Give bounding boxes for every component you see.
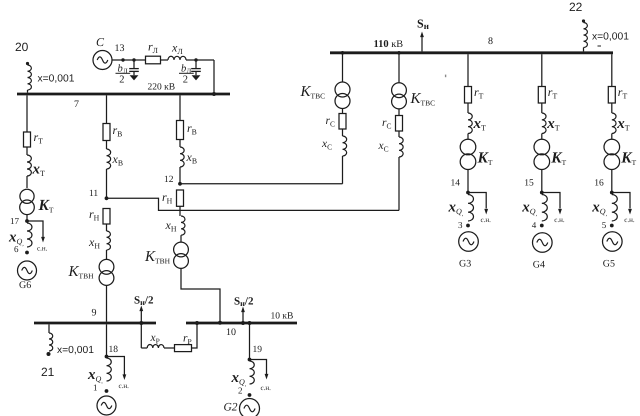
arrow s.n. node 18 (123, 374, 127, 380)
junction dot on bus 7 (212, 92, 216, 96)
wire x_t to K_t G5 (611, 134, 613, 140)
transformer K_tvs R circle 2 (392, 94, 407, 109)
svg-text:5: 5 (602, 220, 607, 230)
junction dot bus 9 load (139, 321, 143, 325)
wire x_v to node 12 (179, 167, 181, 184)
wire x_t to K_t G4 (541, 134, 543, 140)
wire r_t to x_t G3 (467, 103, 469, 113)
svg-text:1: 1 (93, 383, 98, 393)
resistor r_s R (396, 116, 403, 132)
svg-text:2: 2 (238, 386, 243, 396)
node 15 dot (540, 191, 544, 195)
transformer K_t G3 circle 2 (460, 154, 476, 170)
arrow s.n. node 17 (41, 237, 45, 243)
junction dot cap2 (194, 58, 197, 61)
wire K_tvn B to bus 10 (181, 268, 220, 321)
junction dot bus8 left K_tvs (341, 51, 345, 55)
transformer K_t G3 circle 1 (460, 139, 476, 155)
inductor x_t G5 (612, 113, 616, 134)
inductor x_t G6 (27, 155, 31, 176)
svg-text:x=0,001: x=0,001 (38, 74, 75, 85)
resistor r_s L (339, 114, 346, 130)
node 2 dot (248, 393, 252, 397)
svg-text:10: 10 (226, 327, 236, 338)
reactance x'_Q G6 (27, 223, 32, 247)
transformer K_tvn B circle 2 (174, 254, 189, 269)
junction dot cap1 (132, 58, 135, 61)
node 18 dot (105, 355, 109, 359)
load Sn/2 wire bus10 (242, 311, 244, 322)
wire node 12 to AT2 middle winding (180, 183, 343, 185)
inductor x_s R (399, 137, 403, 157)
load Sn arrowhead (420, 32, 424, 38)
node 4 dot (540, 224, 544, 228)
wire corner down to bus 7 (213, 60, 215, 93)
wire bus7 to r_t G6 (26, 95, 28, 132)
resistor r_l (146, 56, 161, 64)
svg-text:с.н.: с.н. (37, 245, 48, 253)
stray speck (445, 75, 446, 78)
node 3 dot (466, 224, 470, 228)
node 16 dot (610, 191, 614, 195)
aux load tap node 17 (s.n.) (27, 221, 43, 237)
svg-text:G4: G4 (533, 260, 545, 271)
inductor x_v B (180, 147, 184, 167)
generator G3 circle (459, 232, 479, 252)
resistor r_n A (103, 209, 110, 225)
aux load tap node 18 (s.n.) (107, 357, 125, 375)
transformer K_tvs L circle 1 (335, 82, 350, 97)
resistor r_v B (177, 121, 184, 140)
aux load tap node 19 (s.n.) (250, 360, 267, 375)
aux load tap node 16 (s.n.) (612, 193, 630, 209)
wire bus10 to node 19 (249, 324, 251, 359)
svg-text:x=0,001: x=0,001 (57, 345, 94, 356)
reactance x'_Q G4 (542, 195, 548, 221)
transformer K_tvs L circle 2 (335, 94, 350, 109)
wire r_s to x_s R (398, 131, 400, 137)
wire bus8 down G4 (541, 54, 543, 86)
svg-text:12: 12 (164, 175, 174, 185)
reactance x=0,001 (node 21) (49, 333, 53, 351)
dash under x=0,001 node 22 (598, 45, 602, 47)
svg-text:13: 13 (115, 43, 125, 54)
transformer K_tvs R circle 1 (392, 83, 407, 98)
wire K_tvn A to bus 9 (106, 285, 108, 321)
generator G5 circle (603, 232, 623, 252)
transformer K_t G6 circle 2 (20, 200, 35, 215)
svg-text:22: 22 (569, 0, 583, 14)
wire bus9 down to bridge (140, 324, 142, 348)
wire r_l to x_l (161, 59, 169, 61)
node 20 terminal dot (26, 62, 29, 65)
aux load tap node 15 (s.n.) (542, 193, 560, 209)
wire K_t to node 16 (611, 170, 613, 193)
bus 7 (220 kV busbar) (17, 93, 230, 96)
wire r_t to x_t G4 (541, 103, 543, 113)
node 6 dot (25, 251, 29, 255)
capacitor b_l/2 left with ground (133, 60, 135, 69)
load Sn/2 wire bus9 (140, 310, 142, 322)
svg-text:G6: G6 (19, 280, 31, 291)
svg-text:11: 11 (89, 189, 98, 199)
reactance x'_Q G5 (612, 195, 618, 221)
wire x_s L down to node12 wire (342, 156, 344, 184)
svg-text:с.н.: с.н. (624, 216, 635, 224)
svg-text:с.н.: с.н. (261, 384, 272, 392)
wire bus9 to coil21 (48, 324, 50, 333)
node 1 dot (105, 389, 109, 393)
generator G2 circle (240, 399, 260, 416)
transformer K_t G4 circle 2 (534, 154, 550, 170)
wire x_v to node 11 (106, 169, 108, 199)
wire K_t to node 14 (467, 170, 469, 193)
svg-text:110 кВ: 110 кВ (374, 39, 404, 50)
wire r_v to x_v B (179, 140, 181, 148)
wire x_r to r_r (164, 347, 175, 349)
reactance x'_Q G3 (468, 195, 474, 221)
wire r_r up to bus 10 (192, 324, 198, 348)
node 22 terminal dot (582, 19, 585, 22)
wire bus7 to r_v B (179, 95, 181, 120)
junction dot bus 10 node19 (248, 321, 252, 325)
wire bus8 to K_tvs R (398, 54, 400, 83)
wire r_v to x_v A (106, 141, 108, 150)
resistor r_t G6 (24, 132, 31, 147)
svg-text:C: C (96, 35, 105, 49)
node 12 dot (178, 182, 182, 186)
load Sn/2 arrowhead bus10 (241, 307, 245, 313)
svg-text:16: 16 (594, 179, 604, 189)
inductor x_n A (107, 231, 111, 250)
resistor r_r bridge (175, 345, 192, 352)
wire x_n to K_tvn B (180, 235, 182, 242)
junction dot bus 10 bridge (195, 321, 199, 325)
reactance x'_Q G2 (250, 361, 255, 384)
svg-text:с.н.: с.н. (554, 216, 565, 224)
resistor r_t G3 (465, 87, 472, 104)
arrow s.n. G3 (484, 209, 488, 215)
svg-text:9: 9 (92, 308, 97, 319)
transformer K_tvn B circle 1 (174, 242, 189, 257)
source C circle (93, 51, 112, 70)
wire x_t to K_t G6 (26, 176, 28, 188)
wire bus9 corner to x_r (141, 347, 147, 349)
capacitor b_l/2 right with ground (195, 60, 197, 69)
inductor x_r bridge (147, 345, 164, 349)
node 14 dot (466, 191, 470, 195)
svg-text:8: 8 (488, 36, 493, 47)
svg-text:3: 3 (458, 220, 463, 230)
transformer K_t G5 circle 2 (604, 154, 620, 170)
node 19 dot (248, 358, 252, 362)
bus 10 busbar (10 kV) (186, 322, 297, 325)
aux load tap node 14 (s.n.) (468, 193, 486, 209)
transformer K_tvn A circle 2 (99, 271, 114, 286)
svg-text:2: 2 (119, 75, 124, 86)
node 11 dot (105, 196, 109, 200)
svg-text:10 кВ: 10 кВ (271, 312, 294, 322)
wire x_s R down to node11 wire (398, 157, 400, 210)
inductor x_s L (343, 136, 347, 156)
svg-text:x=0,001: x=0,001 (592, 32, 629, 43)
wire r_n to x_n A (106, 224, 108, 231)
arrow s.n. G5 (628, 209, 632, 215)
wire x_n to K_tvn A (106, 250, 108, 260)
arrow s.n. node 19 (265, 374, 269, 380)
transformer K_t G4 circle 1 (534, 139, 550, 155)
node 17 dot (25, 219, 29, 223)
wire r_t to x_t G6 (26, 147, 28, 155)
svg-text:2: 2 (183, 75, 188, 86)
wire coil22 to bus 8 (583, 48, 585, 52)
svg-text:17: 17 (10, 216, 20, 226)
svg-text:G5: G5 (603, 259, 615, 270)
wire r_n to x_n B (179, 206, 181, 216)
svg-text:20: 20 (15, 40, 29, 54)
svg-text:G3: G3 (459, 259, 471, 270)
svg-text:4: 4 (532, 220, 537, 230)
load Sn wire (421, 36, 423, 51)
svg-text:с.н.: с.н. (119, 382, 130, 390)
load Sn/2 arrowhead bus9 (139, 306, 143, 312)
svg-text:19: 19 (253, 345, 263, 355)
svg-text:7: 7 (74, 99, 79, 110)
wire bus8 down G5 (611, 54, 613, 86)
wire coil20 to bus 7 (27, 90, 29, 93)
node 13 dot (121, 58, 124, 61)
resistor r_v A (103, 124, 110, 141)
svg-text:Sн/2: Sн/2 (134, 295, 154, 307)
transformer K_t G6 circle 1 (20, 189, 34, 203)
svg-text:220 кВ: 220 кВ (148, 83, 176, 93)
junction dot bus 10 load (241, 321, 245, 325)
node 21 terminal dot (47, 352, 51, 356)
wire C to r_l (112, 59, 146, 61)
generator G1 circle (97, 396, 116, 415)
wire bus8 to K_tvs L (342, 54, 344, 82)
generator G4 circle (533, 233, 553, 253)
generator G6 circle (18, 261, 37, 280)
wire r_t to x_t G5 (611, 103, 613, 113)
wire bus7 to r_v A (106, 95, 108, 123)
arrow s.n. G4 (558, 209, 562, 215)
node 5 dot (610, 224, 614, 228)
svg-text:6: 6 (14, 244, 19, 254)
svg-text:18: 18 (109, 345, 119, 355)
wire x_l to cap2 (186, 59, 196, 61)
wire K_tvs R to r_s R (398, 109, 400, 116)
wire x_t to K_t G3 (467, 134, 469, 140)
wire node 11 to AT1 middle winding (107, 198, 400, 210)
inductor x_l (168, 56, 186, 60)
inductor x_t G3 (468, 113, 472, 134)
transformer K_t G5 circle 1 (604, 139, 620, 155)
inductor x_t G4 (542, 113, 546, 134)
reactance x'_Q G1 (107, 358, 112, 381)
resistor r_n B (177, 190, 184, 206)
resistor r_t G4 (538, 87, 545, 104)
inductor x_n B (181, 216, 185, 235)
wire bus9 to node 18 (106, 324, 108, 356)
svg-text:Sн/2: Sн/2 (234, 296, 254, 308)
wire K_tvs L to r_s L (342, 109, 344, 114)
svg-text:21: 21 (41, 365, 55, 379)
wire r_s to x_s L (342, 129, 344, 136)
wire K_t to node 15 (541, 170, 543, 193)
svg-text:G2: G2 (224, 402, 238, 414)
svg-text:15: 15 (524, 179, 534, 189)
resistor r_t G5 (608, 87, 615, 104)
wire cap2 to corner (196, 59, 214, 61)
wire bus8 down G3 (467, 54, 469, 86)
svg-text:с.н.: с.н. (481, 216, 492, 224)
wire K_t to node 17 (26, 214, 28, 221)
svg-text:14: 14 (451, 179, 461, 189)
junction dot bus 10 branch B (218, 321, 222, 325)
junction dot bus8 right K_tvs (397, 51, 401, 55)
transformer K_tvn A circle 1 (99, 259, 114, 274)
bus 8 (110 kV busbar) (330, 51, 613, 54)
reactance x=0,001 (node 20) (28, 65, 32, 90)
reactance x=0,001 (node 22) (584, 22, 588, 47)
bus 9 busbar (34, 322, 156, 325)
inductor x_v A (107, 149, 111, 169)
